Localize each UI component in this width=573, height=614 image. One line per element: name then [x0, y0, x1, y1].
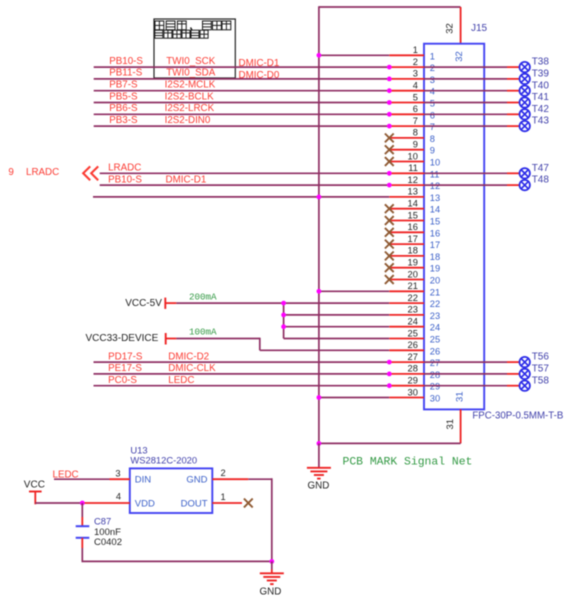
wire VCC-5V net vertical — [283, 303, 285, 338]
junction VCC-5V pin 23 — [281, 313, 286, 318]
power port VCC33-DEVICE tick — [165, 333, 167, 345]
no-connect X pin 8 — [385, 134, 394, 143]
junction pin 2 — [387, 65, 392, 70]
power port VCC-5V tick — [164, 298, 166, 309]
port T43 stub — [507, 125, 520, 127]
wire TWI0_SCK net (pin 2 row) — [94, 66, 390, 68]
wire bottom rail — [82, 560, 272, 562]
wire pin 13 row — [93, 196, 389, 198]
junction pin 4 — [387, 88, 392, 93]
svg-text:16: 16 — [430, 228, 440, 238]
svg-text:VDD: VDD — [135, 498, 155, 509]
svg-text:32: 32 — [445, 23, 456, 34]
svg-text:8: 8 — [413, 128, 418, 138]
svg-text:J15: J15 — [471, 23, 488, 34]
port T48 stub — [507, 184, 520, 186]
svg-text:14: 14 — [430, 205, 440, 215]
svg-text:FPC-30P-0.5MM-T-B: FPC-30P-0.5MM-T-B — [472, 411, 563, 422]
svg-text:15: 15 — [408, 210, 418, 220]
svg-text:I2S2-LRCK: I2S2-LRCK — [165, 103, 215, 114]
svg-text:DMIC-D1: DMIC-D1 — [239, 58, 280, 69]
svg-text:15: 15 — [430, 217, 440, 227]
svg-text:26: 26 — [430, 346, 440, 356]
svg-text:20: 20 — [430, 276, 440, 286]
pin 11 stub of J15 — [389, 172, 424, 174]
wire DMIC-CLK net (pin 28 row) — [94, 373, 390, 375]
pin 30 stub of J15 — [389, 397, 424, 399]
svg-text:7: 7 — [413, 116, 418, 126]
svg-text:1: 1 — [221, 492, 226, 502]
pin 28 stub of J15 — [389, 373, 424, 375]
no-connect X DOUT — [244, 499, 253, 508]
svg-text:3: 3 — [413, 69, 418, 79]
svg-text:27: 27 — [408, 352, 418, 362]
junction pin 5 — [387, 100, 392, 105]
junction GND net pin 21 — [317, 289, 322, 294]
svg-text:PB10-S: PB10-S — [109, 56, 143, 67]
wire VDD junction down to C87 — [81, 503, 83, 517]
port T38 symbol — [520, 62, 530, 72]
svg-text:200mA: 200mA — [189, 292, 217, 303]
svg-text:8: 8 — [430, 134, 435, 144]
port T39 stub — [507, 78, 520, 80]
port T42 stub — [507, 113, 520, 115]
svg-text:24: 24 — [408, 317, 418, 327]
note text line 2 (Chinese) — [155, 30, 208, 38]
wire VCC33-DEVICE step vertical — [259, 338, 261, 351]
svg-text:12: 12 — [430, 181, 440, 191]
port T41 symbol — [520, 97, 530, 107]
wire I2S2-BCLK net (pin 5 row) — [94, 102, 390, 104]
svg-text:23: 23 — [430, 311, 440, 321]
pin 32 stub of J15 — [460, 7, 462, 44]
wire pin 25 to VCC-5V net — [284, 338, 390, 340]
svg-text:VCC: VCC — [24, 479, 45, 490]
svg-text:13: 13 — [430, 193, 440, 203]
svg-text:DMIC-CLK: DMIC-CLK — [168, 363, 216, 374]
wire pin 21 to GND net — [319, 290, 389, 292]
port T56 stub — [507, 361, 520, 363]
capacitor C87 top lead — [81, 517, 83, 526]
port T56 symbol — [520, 357, 530, 367]
port T40 symbol — [520, 86, 530, 96]
svg-text:18: 18 — [408, 246, 418, 256]
svg-text:T38: T38 — [532, 57, 550, 68]
wire pin 1 to GND net — [319, 54, 389, 56]
svg-text:3: 3 — [430, 75, 435, 85]
wire LEDC net to DIN — [54, 478, 110, 480]
wire VCC33-DEVICE horizontal upper — [176, 338, 259, 340]
pin 7 stub of J15 — [389, 125, 424, 127]
svg-text:4: 4 — [116, 492, 121, 502]
port T39 symbol — [520, 74, 530, 84]
pin 1 stub of U13 — [212, 502, 242, 504]
svg-text:DMIC-D2: DMIC-D2 — [168, 351, 209, 362]
svg-text:21: 21 — [408, 281, 418, 291]
wire I2S2-LRCK net (pin 6 row) — [94, 113, 390, 115]
port T58 stub — [507, 385, 520, 387]
wire pin 2 through to port T38 — [424, 66, 507, 68]
wire pin 7 through to port T43 — [424, 125, 507, 127]
svg-text:14: 14 — [408, 199, 418, 209]
port T38 stub — [507, 66, 520, 68]
wire DMIC-D2 net (pin 27 row) — [94, 361, 390, 363]
wire GND net bottom horizontal — [319, 442, 461, 444]
port T40 stub — [507, 90, 520, 92]
wire pin 4 through to port T40 — [424, 90, 507, 92]
svg-text:GND: GND — [186, 475, 207, 486]
pin 21 stub of J15 — [389, 290, 424, 292]
svg-text:LRADC: LRADC — [26, 167, 59, 178]
svg-text:13: 13 — [408, 187, 418, 197]
pin 8 stub of J15 — [389, 137, 424, 139]
wire pin 30 to GND net — [319, 397, 389, 399]
wire pin 6 through to port T42 — [424, 113, 507, 115]
off-page chevron symbol — [83, 166, 98, 180]
svg-text:26: 26 — [408, 340, 418, 350]
wire I2S2-MCLK net (pin 4 row) — [94, 90, 390, 92]
wire VCC33-DEVICE to pin 26 — [260, 349, 390, 351]
ground symbol GND (U13) — [260, 573, 284, 584]
no-connect X pin 9 — [385, 145, 394, 154]
pin 25 stub of J15 — [389, 338, 424, 340]
svg-text:GND: GND — [260, 587, 282, 598]
svg-text:30: 30 — [408, 387, 418, 397]
wire GND pin2 vertical — [271, 478, 273, 561]
junction pin 29 — [387, 383, 392, 388]
port T58 symbol — [520, 381, 530, 391]
pin 19 stub of J15 — [389, 267, 424, 269]
svg-text:DMIC-D0: DMIC-D0 — [239, 70, 280, 81]
port T47 symbol — [520, 168, 530, 178]
wire pin 3 through to port T39 — [424, 78, 507, 80]
port T43 symbol — [520, 121, 530, 131]
junction pin 11 — [387, 171, 392, 176]
junction GND net pin 30 — [317, 395, 322, 400]
no-connect X pin 15 — [385, 216, 394, 225]
svg-text:TWI0_SCK: TWI0_SCK — [166, 56, 215, 67]
svg-text:16: 16 — [408, 222, 418, 232]
junction pin 27 — [387, 360, 392, 365]
svg-text:PB6-S: PB6-S — [109, 103, 138, 114]
svg-text:1: 1 — [430, 51, 435, 61]
svg-text:T57: T57 — [532, 364, 550, 375]
svg-text:PCB MARK Signal Net: PCB MARK Signal Net — [343, 457, 473, 469]
pin 17 stub of J15 — [389, 243, 424, 245]
wire LRADC net (pin 11 row) — [100, 172, 390, 174]
note box border — [154, 19, 235, 78]
svg-text:I2S2-MCLK: I2S2-MCLK — [165, 80, 216, 91]
svg-text:21: 21 — [430, 287, 440, 297]
junction VCC-5V pin 22 — [281, 301, 286, 306]
svg-text:31: 31 — [454, 391, 465, 402]
wire pin 28 through to port T57 — [424, 373, 507, 375]
junction GND net pin 1 — [317, 53, 322, 58]
capacitor C87 bottom lead — [81, 538, 83, 548]
svg-text:T41: T41 — [532, 92, 550, 103]
svg-text:DOUT: DOUT — [181, 498, 208, 509]
svg-text:32: 32 — [454, 51, 465, 62]
wire pin 5 through to port T41 — [424, 102, 507, 104]
pin 31 stub of J15 — [460, 409, 462, 443]
svg-text:GND: GND — [308, 481, 330, 492]
port T47 stub — [507, 172, 520, 174]
no-connect X pin 16 — [385, 228, 394, 237]
port T42 symbol — [520, 109, 530, 119]
svg-text:LRADC: LRADC — [108, 163, 141, 174]
wire C87 to bottom rail — [81, 548, 83, 561]
svg-text:PC0-S: PC0-S — [108, 375, 137, 386]
svg-text:18: 18 — [430, 252, 440, 262]
svg-text:5: 5 — [430, 99, 435, 109]
svg-text:T43: T43 — [532, 116, 550, 127]
svg-text:22: 22 — [408, 293, 418, 303]
svg-text:PB11-S: PB11-S — [109, 68, 143, 79]
no-connect X pin 19 — [385, 263, 394, 272]
svg-text:3: 3 — [115, 468, 120, 478]
junction bottom rail GND — [269, 559, 274, 564]
svg-text:23: 23 — [408, 305, 418, 315]
svg-text:7: 7 — [430, 122, 435, 132]
wire GND net left vertical — [318, 6, 320, 443]
svg-text:T42: T42 — [532, 104, 550, 115]
wire pin 29 through to port T58 — [424, 385, 507, 387]
pin 2 stub of J15 — [389, 66, 424, 68]
svg-text:10: 10 — [430, 158, 440, 168]
svg-text:9: 9 — [413, 140, 418, 150]
junction pin 12 — [387, 183, 392, 188]
svg-text:PB10-S: PB10-S — [108, 175, 142, 186]
svg-text:12: 12 — [408, 175, 418, 185]
pin 2 stub of U13 — [212, 478, 248, 480]
wire GND net top horizontal — [319, 6, 461, 8]
svg-text:PE17-S: PE17-S — [108, 363, 142, 374]
svg-text:TWI0_SDA: TWI0_SDA — [166, 68, 215, 79]
pin 29 stub of J15 — [389, 385, 424, 387]
junction GND net bottom — [317, 441, 322, 446]
pin 12 stub of J15 — [389, 184, 424, 186]
capacitor C87 plates — [76, 525, 90, 527]
pin 16 stub of J15 — [389, 231, 424, 233]
wire pin 24 to VCC-5V net — [284, 326, 390, 328]
svg-text:25: 25 — [408, 328, 418, 338]
svg-text:4: 4 — [430, 87, 435, 97]
svg-text:T40: T40 — [532, 80, 550, 91]
svg-text:27: 27 — [430, 358, 440, 368]
svg-text:100nF: 100nF — [94, 527, 121, 538]
svg-text:2: 2 — [430, 63, 435, 73]
wire DMIC-D1 net (pin 12 row) — [100, 184, 390, 186]
port T57 stub — [507, 373, 520, 375]
port T57 symbol — [520, 369, 530, 379]
svg-text:17: 17 — [408, 234, 418, 244]
power symbol VCC bar — [29, 491, 42, 493]
svg-text:LEDC: LEDC — [168, 375, 194, 386]
wire VCC to VDD horizontal — [35, 502, 84, 504]
svg-text:25: 25 — [430, 335, 440, 345]
svg-text:PD17-S: PD17-S — [108, 351, 143, 362]
pin 3 stub of J15 — [389, 78, 424, 80]
svg-text:19: 19 — [430, 264, 440, 274]
svg-text:100mA: 100mA — [189, 327, 217, 338]
svg-text:29: 29 — [408, 376, 418, 386]
wire pin 11 through to port T47 — [424, 172, 507, 174]
svg-text:9: 9 — [430, 146, 435, 156]
svg-text:VCC-5V: VCC-5V — [125, 298, 162, 309]
wire LEDC net (pin 29 row) — [94, 385, 390, 387]
ground symbol GND (connector) — [307, 468, 331, 479]
svg-text:20: 20 — [408, 269, 418, 279]
pin 26 stub of J15 — [389, 349, 424, 351]
wire pin 12 through to port T48 — [424, 184, 507, 186]
pin 23 stub of J15 — [389, 314, 424, 316]
svg-text:5: 5 — [413, 92, 418, 102]
wire I2S2-DIN0 net (pin 7 row) — [94, 125, 390, 127]
svg-text:PB7-S: PB7-S — [109, 80, 138, 91]
pin 3 stub of U13 — [110, 478, 130, 480]
svg-text:I2S2-BCLK: I2S2-BCLK — [165, 91, 214, 102]
svg-text:C87: C87 — [94, 516, 111, 527]
svg-text:C0402: C0402 — [94, 537, 122, 548]
junction pin 7 — [387, 124, 392, 129]
svg-text:VCC33-DEVICE: VCC33-DEVICE — [86, 333, 159, 344]
svg-text:19: 19 — [408, 258, 418, 268]
svg-text:24: 24 — [430, 323, 440, 333]
svg-text:31: 31 — [445, 419, 456, 430]
svg-text:T47: T47 — [532, 163, 550, 174]
svg-text:1: 1 — [413, 45, 418, 55]
IC U13 body — [130, 468, 213, 513]
svg-text:4: 4 — [413, 81, 418, 91]
wire TWI0_SDA net (pin 3 row) — [94, 78, 390, 80]
wire pin 27 through to port T56 — [424, 361, 507, 363]
svg-text:6: 6 — [430, 110, 435, 120]
junction pin 6 — [387, 112, 392, 117]
pin 18 stub of J15 — [389, 255, 424, 257]
svg-text:2: 2 — [221, 468, 226, 478]
no-connect X pin 14 — [385, 204, 394, 213]
svg-text:29: 29 — [430, 382, 440, 392]
wire pin 23 to VCC-5V net — [284, 314, 390, 316]
wire VCC-5V net horizontal — [176, 302, 389, 304]
svg-text:WS2812C-2020: WS2812C-2020 — [130, 454, 197, 465]
pin 4 stub of J15 — [389, 90, 424, 92]
wire GND stem — [318, 443, 320, 467]
pin 10 stub of J15 — [389, 161, 424, 163]
svg-text:28: 28 — [430, 370, 440, 380]
port T41 stub — [507, 102, 520, 104]
no-connect X pin 18 — [385, 252, 394, 261]
note text line 1 (Chinese) — [155, 21, 231, 30]
svg-text:T39: T39 — [532, 69, 550, 80]
svg-text:11: 11 — [408, 163, 418, 173]
pin 14 stub of J15 — [389, 208, 424, 210]
junction pin 28 — [387, 372, 392, 377]
wire GND pin2 horizontal — [248, 478, 271, 480]
port T48 symbol — [520, 180, 530, 190]
svg-text:PB3-S: PB3-S — [109, 115, 138, 126]
svg-text:6: 6 — [413, 104, 418, 114]
pin 13 stub of J15 — [389, 196, 424, 198]
no-connect X pin 17 — [385, 240, 394, 249]
svg-text:I2S2-DIN0: I2S2-DIN0 — [165, 115, 211, 126]
svg-text:10: 10 — [408, 151, 418, 161]
junction VDD / C87 — [80, 501, 85, 506]
svg-text:T56: T56 — [532, 352, 550, 363]
pin 24 stub of J15 — [389, 326, 424, 328]
pin 1 stub of J15 — [389, 54, 424, 56]
pin 22 stub of J15 — [389, 302, 424, 304]
svg-text:T48: T48 — [532, 175, 550, 186]
svg-text:22: 22 — [430, 299, 440, 309]
svg-text:11: 11 — [430, 169, 440, 179]
pin 6 stub of J15 — [389, 113, 424, 115]
pin 5 stub of J15 — [389, 102, 424, 104]
svg-text:DMIC-D1: DMIC-D1 — [166, 175, 207, 186]
svg-text:9: 9 — [8, 167, 13, 178]
junction pin 3 — [387, 77, 392, 82]
svg-text:2: 2 — [413, 57, 418, 67]
no-connect X pin 20 — [385, 275, 394, 284]
svg-text:30: 30 — [430, 394, 440, 404]
pin 20 stub of J15 — [389, 279, 424, 281]
connector J15 body — [424, 44, 484, 410]
svg-text:17: 17 — [430, 240, 440, 250]
wire GND stem (U13) — [271, 561, 273, 569]
svg-text:PB5-S: PB5-S — [109, 91, 138, 102]
pin 15 stub of J15 — [389, 220, 424, 222]
svg-text:28: 28 — [408, 364, 418, 374]
pin 27 stub of J15 — [389, 361, 424, 363]
svg-text:T58: T58 — [532, 375, 550, 386]
svg-text:DIN: DIN — [135, 475, 152, 486]
junction VCC-5V pin 24 — [281, 324, 286, 329]
junction GND net pin 13 — [317, 195, 322, 200]
pin 4 stub of U13 — [84, 502, 130, 504]
pin 9 stub of J15 — [389, 149, 424, 151]
no-connect X pin 10 — [385, 157, 394, 166]
